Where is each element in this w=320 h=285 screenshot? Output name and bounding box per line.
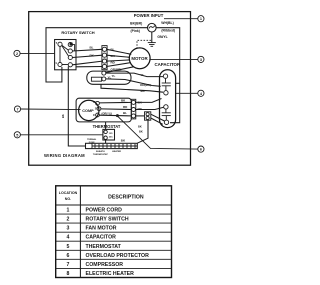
svg-text:FAN MOTOR: FAN MOTOR bbox=[86, 226, 117, 232]
wire stub to capacitor right bbox=[176, 82, 180, 84]
callout 3 FAN MOTOR bbox=[149, 56, 204, 62]
svg-text:5: 5 bbox=[16, 133, 18, 137]
svg-text:GN/YL: GN/YL bbox=[157, 35, 167, 39]
wire heater up to junction bbox=[137, 120, 148, 143]
svg-text:(Ribbed): (Ribbed) bbox=[161, 28, 175, 32]
svg-text:TERMAL: TERMAL bbox=[87, 138, 97, 141]
outer wiring-diagram border frame bbox=[29, 12, 191, 166]
svg-text:8: 8 bbox=[67, 271, 70, 277]
switch terminal 7 bbox=[58, 42, 62, 46]
callout 6 OVERLOAD PROTECTOR with diagonal pointer bbox=[117, 116, 204, 152]
terminal C bbox=[96, 113, 100, 117]
wire BK compressor R bbox=[99, 101, 131, 104]
svg-text:POWER INPUT: POWER INPUT bbox=[134, 13, 164, 18]
small junction box bbox=[145, 112, 151, 120]
compressor enclosure box B bbox=[76, 98, 131, 122]
svg-text:S: S bbox=[95, 107, 97, 111]
svg-text:ROTARY SWITCH: ROTARY SWITCH bbox=[61, 30, 94, 35]
svg-text:THERMOSTAT: THERMOSTAT bbox=[93, 153, 109, 156]
svg-text:MOTOR: MOTOR bbox=[131, 56, 148, 61]
svg-text:POWER CORD: POWER CORD bbox=[86, 208, 123, 214]
thermostat S2 bbox=[103, 129, 115, 140]
wire switch to strip RD bbox=[72, 61, 102, 65]
wire OR(YL) compressor C bbox=[99, 114, 131, 117]
right connector strip bbox=[131, 99, 136, 119]
wire switch box to strip OR bbox=[76, 66, 102, 68]
svg-text:COMPRESSOR: COMPRESSOR bbox=[86, 262, 124, 268]
wire BK(BR) from plug left to rotary switch bbox=[46, 28, 148, 82]
svg-text:BL: BL bbox=[90, 46, 94, 50]
callout 5 THERMOSTAT bbox=[14, 132, 103, 138]
wires strip to capacitor bottom bbox=[136, 99, 162, 103]
wire WH(BL) from plug right down to capacitor bbox=[156, 28, 180, 123]
dashed earth wire from motor frame bbox=[137, 40, 152, 49]
svg-text:(OR(YL)): (OR(YL)) bbox=[102, 111, 113, 115]
svg-text:1: 1 bbox=[200, 17, 202, 21]
capacitor plates bottom bbox=[165, 109, 167, 113]
svg-text:2: 2 bbox=[16, 52, 18, 56]
electric heater HR1 bbox=[86, 143, 138, 148]
svg-text:BL: BL bbox=[123, 111, 127, 115]
wire plug to ground bbox=[151, 32, 153, 43]
power plug P1 (AC source symbol) bbox=[148, 23, 157, 32]
svg-text:(Pink): (Pink) bbox=[130, 29, 139, 33]
svg-text:OVERLOAD PROTECTOR: OVERLOAD PROTECTOR bbox=[86, 253, 150, 259]
parts table bbox=[56, 186, 172, 278]
compressor U7 bbox=[79, 100, 99, 120]
switch contact links bbox=[59, 46, 61, 62]
rotary switch S1 body bbox=[55, 40, 76, 70]
fan motor M1 bbox=[129, 48, 150, 69]
callout 1 POWER CORD bbox=[164, 16, 204, 22]
svg-text:6: 6 bbox=[67, 253, 70, 259]
svg-text:NO.: NO. bbox=[65, 197, 71, 201]
svg-text:4: 4 bbox=[67, 235, 70, 241]
wire BK switch down to heater bbox=[68, 67, 85, 147]
svg-text:1: 1 bbox=[67, 208, 70, 214]
terminal R bbox=[96, 101, 100, 105]
svg-text:LOCATION: LOCATION bbox=[59, 191, 78, 195]
wire thermostat up bbox=[105, 122, 107, 129]
capacitor terminals bbox=[163, 74, 167, 78]
svg-text:WH(BL): WH(BL) bbox=[161, 21, 173, 25]
ground bbox=[148, 43, 156, 47]
svg-text:CAPACITOR: CAPACITOR bbox=[86, 235, 117, 241]
svg-text:7: 7 bbox=[16, 108, 18, 112]
svg-text:6: 6 bbox=[200, 148, 202, 152]
wire BK to capacitor bbox=[101, 84, 163, 92]
wire BL switch to strip bbox=[72, 49, 102, 51]
svg-text:3: 3 bbox=[67, 226, 70, 232]
wire RD compressor S bbox=[101, 108, 131, 111]
connector strip terminals bbox=[102, 46, 107, 70]
svg-text:BK: BK bbox=[138, 125, 142, 129]
svg-text:BK: BK bbox=[61, 114, 65, 118]
svg-text:SHEATH: SHEATH bbox=[96, 150, 105, 153]
wires strip to motor bbox=[107, 49, 132, 54]
svg-text:CAPACITOR: CAPACITOR bbox=[154, 62, 181, 67]
svg-text:BK(BR): BK(BR) bbox=[130, 22, 142, 26]
svg-text:3: 3 bbox=[200, 58, 202, 62]
wire thermostat down to heater bbox=[105, 140, 107, 143]
callout 4 CAPACITOR bbox=[176, 90, 204, 96]
switch terminal 1 bbox=[58, 62, 62, 66]
switch terminal row right col bbox=[68, 43, 72, 47]
svg-text:DESCRIPTION: DESCRIPTION bbox=[108, 195, 144, 201]
overload protector dot bbox=[116, 114, 119, 117]
svg-text:ROTARY SWITCH: ROTARY SWITCH bbox=[86, 217, 129, 223]
wire OR(BR) to capacitor bbox=[106, 79, 161, 86]
capacitor C1 body bbox=[160, 70, 176, 128]
svg-text:7: 7 bbox=[67, 262, 70, 268]
svg-text:YL: YL bbox=[112, 74, 116, 78]
svg-text:2: 2 bbox=[67, 217, 70, 223]
terminal S bbox=[97, 107, 101, 111]
capacitor plates top bbox=[165, 78, 167, 83]
svg-text:BK: BK bbox=[139, 130, 143, 134]
svg-text:5: 5 bbox=[67, 244, 70, 250]
junction box A bbox=[87, 71, 131, 84]
callout 7 COMPRESSOR bbox=[14, 106, 80, 112]
svg-text:WIRING DIAGRAM: WIRING DIAGRAM bbox=[44, 153, 85, 158]
wire YL to capacitor bbox=[106, 73, 163, 77]
svg-text:25C: 25C bbox=[109, 137, 113, 139]
callout 2 ROTARY SWITCH bbox=[14, 50, 55, 56]
svg-text:THERMOSTAT: THERMOSTAT bbox=[86, 244, 122, 250]
svg-text:HEATER: HEATER bbox=[112, 150, 121, 153]
svg-text:YL: YL bbox=[141, 73, 145, 77]
svg-text:OR(BR): OR(BR) bbox=[140, 83, 151, 87]
svg-text:ELECTRIC HEATER: ELECTRIC HEATER bbox=[86, 271, 135, 277]
svg-text:THERMOSTAT: THERMOSTAT bbox=[93, 124, 121, 129]
wire BK switch to strip bbox=[72, 55, 102, 57]
